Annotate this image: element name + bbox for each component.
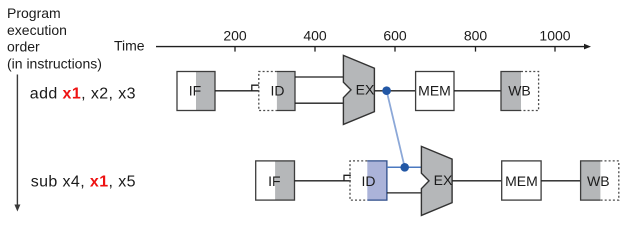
svg-text:execution: execution xyxy=(7,22,67,38)
stage box IF (sub) xyxy=(256,161,295,200)
svg-text:ID: ID xyxy=(271,83,285,99)
wire ID to EX lower (sub) xyxy=(387,192,422,194)
time axis xyxy=(156,44,591,50)
svg-text:ID: ID xyxy=(362,173,376,189)
tick 800 xyxy=(464,28,488,52)
svg-text:EX: EX xyxy=(434,172,453,188)
svg-text:sub x4, x1, x5: sub x4, x1, x5 xyxy=(31,173,136,190)
node EX upper input (sub) xyxy=(400,163,409,172)
svg-text:1000: 1000 xyxy=(539,28,570,44)
forwarding diagonal from EX (add) to EX input (sub) xyxy=(387,91,405,168)
wire MEM to WB (sub) xyxy=(541,180,581,182)
ALU EX (add) xyxy=(343,55,375,124)
node EX/MEM output (add) xyxy=(382,86,391,95)
svg-text:(in instructions): (in instructions) xyxy=(7,55,102,71)
svg-text:IF: IF xyxy=(189,83,201,99)
svg-text:600: 600 xyxy=(383,28,407,44)
stage box WB (add) xyxy=(501,72,539,111)
ALU EX (sub) xyxy=(421,146,453,215)
svg-text:EX: EX xyxy=(356,82,375,98)
wire ID to EX upper (add) xyxy=(295,76,343,78)
stage box MEM (add) xyxy=(416,72,454,111)
wire MEM to WB (add) xyxy=(454,90,501,92)
stage box MEM (sub) xyxy=(502,161,541,200)
stage box ID (sub) xyxy=(350,161,387,200)
tick 400 xyxy=(303,28,327,52)
tick 1000 xyxy=(539,28,570,52)
svg-text:MEM: MEM xyxy=(418,83,451,99)
tick 200 xyxy=(223,28,247,52)
wire IF to ID (sub) xyxy=(295,180,351,182)
stage box ID (add) xyxy=(259,72,295,111)
svg-text:800: 800 xyxy=(464,28,488,44)
svg-text:WB: WB xyxy=(587,173,610,189)
register-read notch (sub) xyxy=(344,175,351,181)
svg-text:Time: Time xyxy=(114,37,145,53)
svg-text:200: 200 xyxy=(223,28,247,44)
tick 600 xyxy=(383,28,407,52)
program order arrow xyxy=(14,75,20,212)
wire ID to EX lower (add) xyxy=(295,102,343,104)
svg-text:Program: Program xyxy=(7,5,61,21)
svg-text:WB: WB xyxy=(508,83,531,99)
svg-text:IF: IF xyxy=(268,173,280,189)
wire EX to MEM (sub) xyxy=(452,180,502,182)
wire EX to MEM (add) xyxy=(374,90,415,92)
register-read notch (add) xyxy=(252,85,259,91)
svg-text:400: 400 xyxy=(303,28,327,44)
wire IF to ID (add) xyxy=(215,90,259,92)
svg-text:order: order xyxy=(7,39,40,55)
svg-text:add x1, x2, x3: add x1, x2, x3 xyxy=(30,85,136,102)
stage box WB (sub) xyxy=(581,161,619,200)
stage box IF (add) xyxy=(177,72,215,111)
label: Program execution order (in instructions) xyxy=(7,5,102,71)
blue wire ID to EX upper (sub) xyxy=(387,166,422,168)
svg-text:MEM: MEM xyxy=(505,173,538,189)
